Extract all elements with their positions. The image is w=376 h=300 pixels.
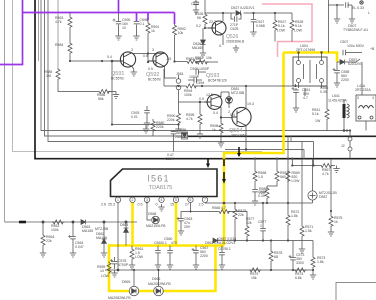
YELLOW_LOOP_PARTS [107,202,247,296]
bottom-left chain [19,220,128,257]
resistor R577 [245,225,249,237]
wire pink highlight box [262,4,312,57]
wire purple stub x136.5 [136,13,138,22]
svg-text:LOW: LOW [135,255,144,259]
ground R561 [129,262,135,269]
ground C598 [133,33,139,40]
capacitor C564 [72,222,74,236]
resistor R578 [270,241,272,251]
ground Q591 [132,67,134,70]
transistor Q593 [204,95,222,110]
wire bus y149.5 right [225,150,304,159]
svg-text:5.1k: 5.1k [295,24,302,28]
wire left frame vertical 1 [4,0,6,222]
resistor R561 [131,246,133,249]
TOP_RIGHT [193,0,294,57]
wire short vertical x38.5 [38,0,40,61]
svg-text:7: 7 [204,198,206,202]
wire right mid verticals [305,62,366,131]
svg-text:EL 0.33: EL 0.33 [352,6,364,10]
svg-text:1k: 1k [212,128,216,132]
svg-text:6.8k: 6.8k [295,276,302,280]
resistor R598 [220,118,222,123]
diode D563 [81,220,85,225]
svg-text:2.5: 2.5 [167,57,172,61]
COMPONENTS [56,13,203,128]
svg-text:0.2: 0.2 [196,24,201,28]
svg-text:4.7k: 4.7k [186,117,193,121]
ground R571 [299,246,305,253]
svg-text:470: 470 [171,241,177,245]
diode D526 [202,28,204,40]
wire base row y86 [164,84,296,103]
resistor R541 [326,86,328,108]
svg-text:0.047: 0.047 [75,245,84,249]
ground R582 [233,45,239,52]
svg-text:1.8k: 1.8k [317,260,324,264]
svg-text:220k: 220k [156,125,164,129]
electrolytic plus marks [68,19,336,263]
capacitor C507 on yellow wire [343,50,345,56]
ground pin4 [158,204,164,211]
svg-text:D569: D569 [122,280,130,284]
svg-text:1M: 1M [46,74,51,78]
svg-text:3300: 3300 [296,261,304,265]
capacitor C595 [196,69,198,75]
wire pin1 drop [117,203,119,271]
resistor R572 [287,136,289,214]
resistor R568 [254,159,256,170]
diode D562 vertical [103,222,105,239]
svg-text:IU2D2V0: IU2D2V0 [348,62,362,66]
capacitor C525 [231,13,241,19]
resistor R563b horizontal 100k [52,220,64,224]
svg-text:25.3: 25.3 [108,203,115,207]
svg-text:68: 68 [274,255,278,259]
svg-text:250V: 250V [175,135,184,139]
wire bus corner y136 [45,0,189,136]
resistor R590 [177,112,181,124]
resistor R563 top-left [68,16,72,28]
svg-text:4: 4 [372,96,374,100]
svg-text:2.6: 2.6 [101,203,106,207]
ground C593 [144,120,150,127]
resistor R526 [204,0,206,13]
Q59X_CLUSTER [69,45,297,184]
ground C579 [219,262,225,269]
capacitor C560 [169,246,171,251]
svg-text:10k: 10k [206,56,212,60]
capacitor C527 [253,13,255,19]
labels top-left [44,16,201,119]
wire emitter row right [165,62,204,79]
RIGHT_SIDE [293,0,376,132]
svg-text:1000P: 1000P [189,75,200,79]
resistor R567 horizontal [292,142,335,166]
capacitor C567 electrolytic [195,246,197,251]
svg-text:19.3: 19.3 [247,102,254,106]
svg-text:1.8k: 1.8k [291,214,298,218]
ground R598 [218,140,224,147]
svg-text:22k: 22k [46,239,52,243]
labels bottom-left [46,223,128,249]
svg-text:0.5: 0.5 [138,203,143,207]
svg-text:2RT-017696: 2RT-017696 [296,48,315,52]
wire purple vertical left [0,0,23,65]
resistor R569 [286,170,290,182]
capacitor C578 [114,257,116,261]
labels Q59x cluster [156,56,254,161]
ground C578 [111,270,117,277]
svg-text:0.: 0. [219,44,222,48]
capacitor C594 [194,77,196,83]
transistor Q592 [148,52,168,67]
svg-text:C594: C594 [196,81,204,85]
svg-text:D527 IU2D2V1: D527 IU2D2V1 [231,6,255,10]
wire thick black vertical + dark bus [35,0,376,159]
svg-text:0: 0 [156,203,158,207]
svg-text:1000P: 1000P [199,67,210,71]
svg-text:1.5k: 1.5k [305,229,312,233]
resistor R584 [68,42,72,54]
yoke coil L43A box [356,95,376,121]
wire collector top link [132,54,165,62]
svg-text:0.4: 0.4 [230,113,235,117]
svg-text:LOW: LOW [277,29,286,33]
svg-text:4.7k: 4.7k [55,20,62,24]
wire bottom-left horizontal [5,221,138,223]
ground EL caps [334,16,340,23]
transformer L541 winding [347,104,349,118]
svg-text:0.9: 0.9 [148,67,153,71]
capacitor C573 electrolytic [292,241,294,258]
resistor R566 horizontal [181,203,218,212]
svg-text:1: 1 [260,224,262,228]
svg-text:BC557B: BC557B [111,77,124,81]
wire bus corner y141.5 [48,0,314,142]
diode D566 circle on yellow [158,270,160,286]
capacitor C568 [252,190,258,192]
svg-text:J561: J561 [176,72,184,76]
wire purple stub x118.5 [118,0,120,13]
diode D586 boxed [182,132,188,139]
connector mark top right [360,1,364,5]
junction dots [204,12,276,29]
svg-text:D568: D568 [148,212,156,216]
svg-text:C522: C522 [191,2,199,6]
svg-text:3: 3 [152,48,154,52]
svg-text:1.5: 1.5 [258,175,263,179]
svg-text:0.068: 0.068 [256,24,265,28]
svg-text:15: 15 [170,203,174,207]
svg-text:LOW: LOW [101,274,110,278]
capacitor C586 [173,130,175,133]
svg-text:D587: D587 [319,195,327,199]
yoke connector L504 box [293,57,327,86]
resistor R588 [266,186,268,187]
capacitor C522 top edge [195,0,197,2]
resistor R527 [274,13,276,19]
resistor R583 horizontal [186,60,198,64]
resistor R571 [301,142,303,226]
capacitor C579 [221,246,223,253]
ground R595 [197,131,203,138]
ground D526 [200,50,206,57]
wire mid horizontal y240.5 [216,240,314,242]
svg-text:2SD636ALB: 2SD636ALB [226,40,245,44]
ground R564 [40,250,46,257]
svg-text:10: 10 [122,26,126,30]
svg-text:J2: J2 [341,144,345,148]
transistor Q526 [208,21,226,35]
wire yellow loop [109,246,224,292]
capacitor C562 [157,246,159,251]
bus junction dots [240,158,294,205]
connector J581 testpoint [176,79,181,84]
wire thick base feed y61 [70,20,148,61]
labels bottom right [218,144,345,280]
capacitor C577 [262,203,264,228]
svg-text:MTZJ5B: MTZJ5B [95,227,109,231]
wire yellow pin5 stub [175,202,178,246]
resistor R575 chain x331 [330,159,332,215]
op-amp U I561 TDA8175 body [111,169,218,197]
wire R585 chain [58,80,116,91]
resistor R559 in series [107,262,111,274]
signal arrow on yellow net [223,159,225,180]
svg-text:0.39: 0.39 [320,90,327,94]
capacitor C561 electrolytic [295,88,297,90]
ground C563 [178,228,184,235]
wire Q593 emitter to Q594 base [221,107,232,118]
svg-text:4: 4 [161,198,163,202]
svg-text:MA2150LFB: MA2150LFB [146,224,166,228]
junction dots transistor row [101,52,176,62]
svg-text:5: 5 [175,198,177,202]
svg-text:250V: 250V [166,157,175,161]
signal arrow into IC top [207,159,209,165]
svg-text:15k: 15k [251,276,257,280]
resistor R573 [312,241,314,257]
svg-text:2: 2 [228,110,230,114]
svg-text:D564: D564 [120,223,128,227]
diode D564 vertical [125,222,127,228]
svg-text:5.1k: 5.1k [312,112,319,116]
wire Q591 emitter down [112,61,179,125]
capacitor C598 [134,22,140,24]
svg-text:22k: 22k [238,213,244,217]
svg-text:22.7: 22.7 [209,20,216,24]
BOTTOM_RIGHT [105,129,352,279]
svg-text:C525: C525 [230,27,238,31]
resistor R564 vertical [42,222,44,234]
resistor R576 [234,203,236,208]
connector J2 between buses [349,131,351,138]
svg-text:1k: 1k [334,220,338,224]
capacitor C563 electrolytic [180,212,182,219]
svg-text:TDA8175: TDA8175 [149,185,173,191]
diode D569 circle on yellow [133,270,135,286]
ground C560 [167,262,173,269]
ground R575 [328,229,334,236]
ground R580 area [143,126,149,133]
svg-text:4700P: 4700P [118,263,129,267]
wire Q592 emitter down [163,69,165,86]
svg-text:1: 1 [117,198,119,202]
svg-text:4.7: 4.7 [303,96,308,100]
ground R573 [310,272,316,279]
wire yellow top horizontal [284,53,338,63]
resistor R594 horizontal [185,84,197,88]
transistor Q594 [232,107,251,126]
resistor R585 [56,68,60,80]
svg-text:R582: R582 [195,56,203,60]
svg-text:100k: 100k [184,93,192,97]
wire vertical x58 top [57,0,59,68]
svg-text:L541: L541 [332,94,340,98]
svg-text:3: 3 [146,198,148,202]
svg-text:2200: 2200 [341,78,349,82]
resistor R582b [276,159,278,170]
capacitor C558 electrolytic [336,62,338,70]
transformer L541 core bar [343,104,346,118]
ground C590 [115,33,121,40]
IC pins 1-7 [115,197,207,202]
svg-text:MA165: MA165 [82,229,93,233]
ground C568 [252,198,258,205]
wire bus corner y130.5 [41,0,350,131]
resistor R595 [199,102,201,113]
resistor R586 [98,90,110,94]
resistor R592 [173,24,177,36]
ground C567 [193,262,199,269]
junction dots right network [117,129,349,271]
svg-text:0.1: 0.1 [226,247,231,251]
svg-text:5.1k: 5.1k [278,24,285,28]
wire R563 stub [69,13,71,43]
resistor R574 horizontal [294,268,306,272]
svg-text:100k: 100k [51,228,59,232]
svg-text:25V: 25V [184,225,191,229]
transistor Q591 [112,52,136,67]
ferrite bead on wire [19,221,26,224]
svg-text:0.4: 0.4 [107,55,112,59]
capacitor C590 electrolytic [118,13,120,22]
ground C558 [334,80,340,87]
junction dots [69,60,297,126]
svg-text:220: 220 [259,191,265,195]
svg-text:MA165: MA165 [96,236,107,240]
junction dots [42,221,44,223]
svg-text:TY5802WLF-A1: TY5802WLF-A1 [343,28,368,32]
svg-text:+B: +B [370,47,375,51]
svg-text:R584: R584 [55,43,63,47]
ground R567 [333,166,339,173]
resistor R591 [146,22,150,34]
spark gap D587 [308,191,317,200]
svg-text:BC557B: BC557B [148,78,161,82]
svg-text:0.01: 0.01 [131,115,138,119]
svg-text:D566: D566 [152,277,160,281]
junction dots yellow loop [133,202,160,272]
ground C562 [155,262,161,269]
svg-text:10: 10 [100,269,104,273]
svg-text:0.1: 0.1 [162,241,167,245]
svg-text:C595: C595 [190,67,198,71]
capacitor C593 [146,106,148,110]
svg-text:2SD1265A: 2SD1265A [231,134,248,138]
svg-text:3: 3 [131,48,133,52]
resistor R580 [152,119,154,120]
resistor R528 [291,13,293,19]
svg-text:220k: 220k [167,118,175,122]
svg-text:1L45L42GA: 1L45L42GA [328,99,347,103]
svg-text:2.5: 2.5 [199,203,204,207]
svg-text:L: L [368,11,370,15]
signal arrow near Q594 [238,147,240,156]
wire yellow main vertical [224,53,284,246]
svg-text:LOW: LOW [292,179,301,183]
wire purple horizontal top [23,12,175,14]
svg-text:0.4: 0.4 [213,111,218,115]
svg-text:R566: R566 [212,206,220,210]
labels yellow loop [97,206,235,300]
svg-text:MA2082WLFB: MA2082WLFB [108,296,131,300]
labels top right [191,2,303,50]
svg-text:3: 3 [357,96,359,100]
ground C561 [293,105,299,112]
labels right side [296,6,375,123]
wire left frame vertical 2 + horizontal light bus [13,0,263,152]
diode D568 circle [147,203,151,221]
svg-text:4.7k: 4.7k [322,172,329,176]
wire top y13 [205,12,292,14]
bottom right frame box [336,283,376,300]
svg-text:560: 560 [280,175,286,179]
diode D581 circle [226,97,233,104]
svg-text:LOW: LOW [294,29,303,33]
wire Q593 base [179,101,209,103]
svg-text:56: 56 [197,16,201,20]
svg-text:10k: 10k [178,31,184,35]
wire yoke box stubs [299,53,322,89]
svg-text:100u 500V: 100u 500V [347,44,365,48]
svg-text:I561: I561 [147,174,169,184]
svg-text:MTZJ5B: MTZJ5B [231,91,245,95]
svg-text:BC547B/126: BC547B/126 [208,79,227,83]
ground C527 [250,29,256,36]
svg-text:2: 2 [132,198,134,202]
ground C564 [70,250,76,257]
svg-text:4.7: 4.7 [221,206,226,210]
diode D527 on top wire [236,11,240,16]
capacitor EL 0.33 top [328,0,330,53]
ground D562 [101,250,107,257]
svg-text:12.5: 12.5 [206,93,213,97]
svg-text:2200: 2200 [200,254,208,258]
svg-text:27: 27 [185,203,189,207]
wire Q526 collector/emitter [222,13,224,45]
svg-text:D561 EXA15-G2V3: D561 EXA15-G2V3 [205,241,235,245]
IC pin voltage labels [101,203,204,207]
wire bottom horizontal y270 [105,269,313,271]
svg-text:1W: 1W [315,119,321,123]
svg-text:0.1: 0.1 [140,22,145,26]
svg-text:2RT-232A: 2RT-232A [355,88,371,92]
diode D557 [337,61,340,63]
wire purple stub x148 [147,13,149,21]
resistor R582 horizontal [196,60,208,64]
